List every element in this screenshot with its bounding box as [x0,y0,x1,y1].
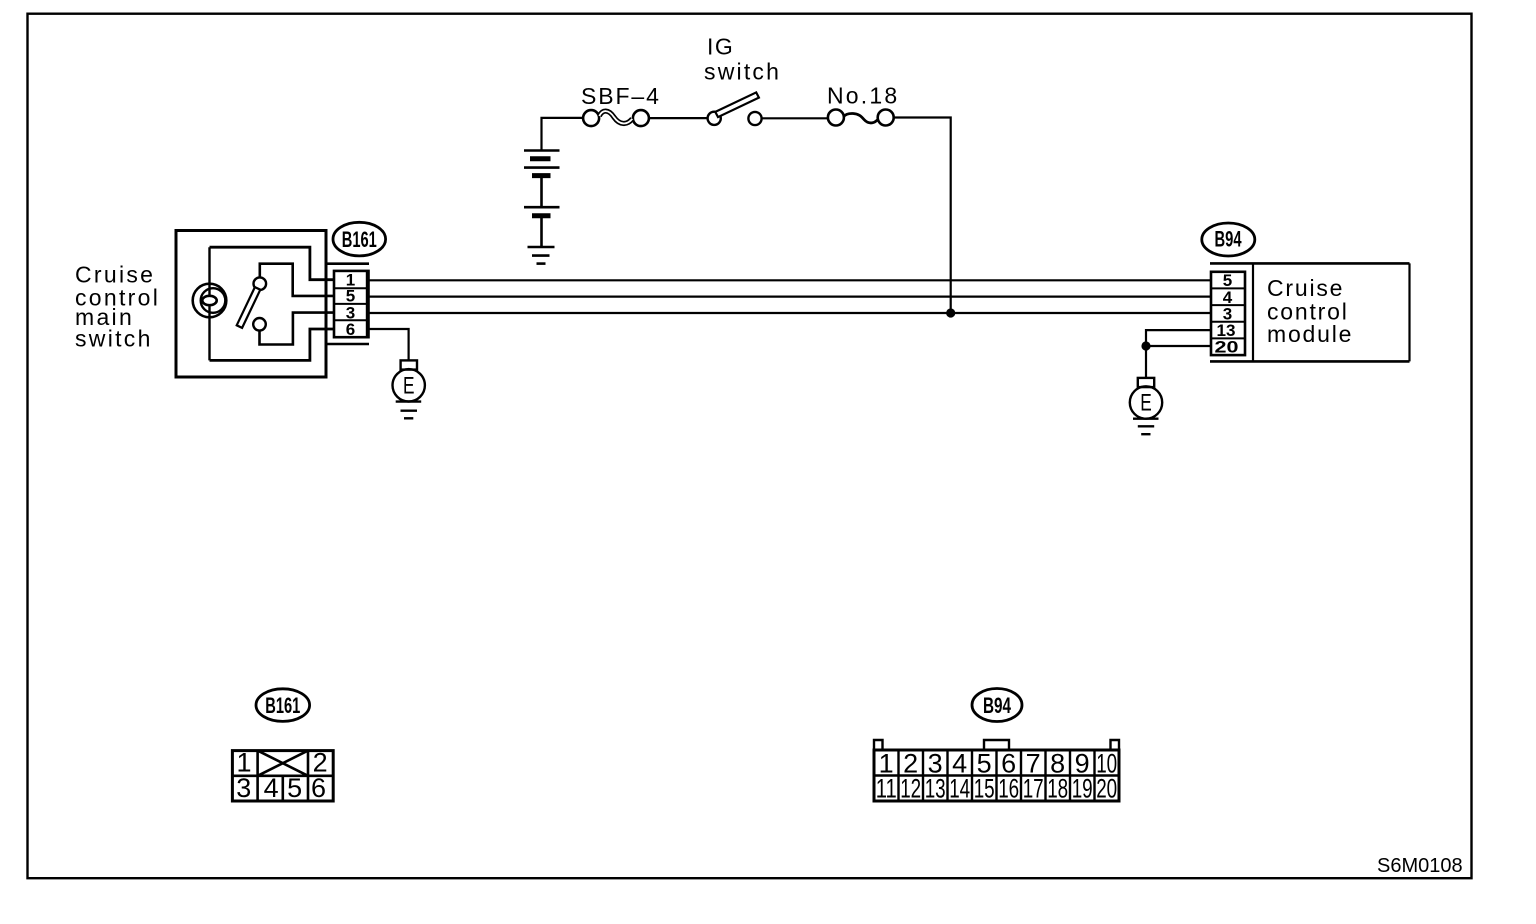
wire B161 pin6 to ground E (left) [369,329,409,360]
svg-text:No.18: No.18 [827,83,899,109]
fuse SBF-4 [583,110,649,126]
fuse No.18 [828,110,894,126]
cruise control main switch box [176,231,326,378]
ground E (right) [1130,378,1162,434]
svg-text:19: 19 [1072,774,1093,804]
svg-text:4: 4 [264,773,279,803]
svg-text:switch: switch [75,326,153,352]
pin numbers connector view B94: 1-20 [876,749,1117,804]
ground E (left) [393,360,425,418]
wire B94 pin13 to node B [1146,330,1211,346]
wire SBF-4 to IG switch [649,117,708,119]
cruise control module box [1210,263,1410,361]
connector B94 (in-circuit strip) [1211,272,1245,355]
wire 1: B161 pin1 to B94 pin5 [369,279,1211,281]
label B94 (ellipse) [1202,223,1255,256]
svg-text:6: 6 [346,320,355,339]
svg-text:12: 12 [900,774,921,804]
wire lamp to pin 1 [210,247,335,280]
pin numbers connector view B161: 1 2 3 4 5 6 [236,748,327,803]
svg-text:E: E [1140,390,1152,417]
svg-text:20: 20 [1215,338,1239,357]
wire IG switch to No.18 [762,117,828,119]
wire 3: B161 pin3 to B94 pin3 [369,312,1211,314]
node B (junction) [1141,341,1150,350]
svg-text:B161: B161 [265,693,300,718]
switch contacts inside main switch [237,277,266,330]
node A (junction with wire 3) [946,308,955,317]
label IG switch [704,34,781,85]
label B94 (bottom ellipse) [972,689,1022,722]
label B161 (bottom ellipse) [256,689,310,722]
pin numbers B161: 1 5 3 6 [346,271,355,339]
svg-text:B94: B94 [983,693,1012,718]
pin numbers B94: 5 4 3 13 20 [1215,271,1239,357]
svg-text:Cruise: Cruise [1267,275,1344,301]
svg-text:B94: B94 [1215,227,1243,252]
connector view B94 (bottom) [874,740,1119,801]
svg-text:16: 16 [998,774,1019,804]
label Cruise control main switch [75,262,160,352]
wire No.18 to node A [894,118,951,314]
svg-text:3: 3 [236,773,251,803]
wire B94 pin20 to node B [1146,345,1211,347]
svg-text:13: 13 [925,774,946,804]
svg-text:B161: B161 [342,227,377,252]
svg-text:18: 18 [1047,774,1068,804]
switch IG [708,92,762,125]
svg-text:14: 14 [949,774,970,804]
ground (battery) [528,247,555,264]
connector B161 (in-circuit strip) [326,264,369,344]
svg-text:E: E [403,373,415,400]
wire lamp to pin 6 [210,329,335,360]
svg-text:S6M0108: S6M0108 [1377,855,1463,877]
wire switch to pin 5 [260,264,334,296]
svg-text:15: 15 [974,774,995,804]
svg-text:switch: switch [704,59,781,85]
svg-text:SBF–4: SBF–4 [581,83,661,109]
wire 2: B161 pin5 to B94 pin4 [369,296,1211,298]
label B161 (ellipse) [333,222,386,256]
svg-text:11: 11 [876,774,897,804]
svg-text:20: 20 [1096,774,1117,804]
lamp (illumination) inside main switch [193,247,227,360]
svg-text:6: 6 [311,773,326,803]
wire switch to pin 3 [260,313,335,345]
connector view B161 (bottom) [232,751,333,801]
label Cruise control module [1267,275,1353,347]
svg-text:17: 17 [1023,774,1044,804]
wire node B to ground E (right) [1145,346,1147,378]
svg-text:IG: IG [707,34,734,60]
svg-text:module: module [1267,321,1353,347]
wire battery to fuse SBF-4 [542,118,584,151]
battery [524,151,560,248]
svg-text:5: 5 [287,773,302,803]
